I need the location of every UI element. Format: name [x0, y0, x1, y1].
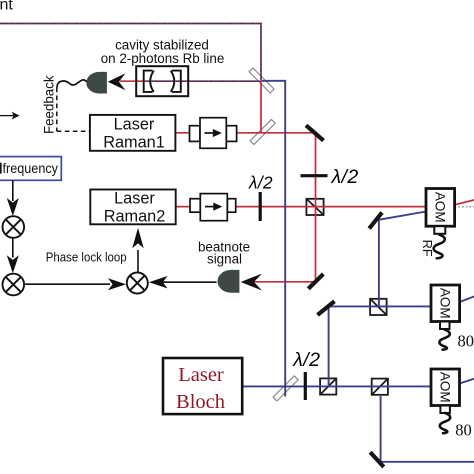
wire: dotted combined beam to experiment (red/blue alternating) [0, 24, 261, 81]
mirror M5 (bottom fold) [370, 452, 384, 467]
PBS3 cube (Bloch path) [372, 379, 388, 395]
svg-text:frequency: frequency [3, 161, 59, 176]
wire: blue vertical PBS4 to mirror M4 [378, 221, 380, 308]
wire: red beam into photodetector PD1 [120, 80, 146, 82]
PBS2 cube (Bloch path) [320, 378, 336, 394]
svg-text:AOM: AOM [438, 288, 453, 319]
svg-text:signal: signal [207, 251, 242, 266]
wire: red beatnote beam to detector [243, 281, 314, 283]
wire: red beam Laser Raman2 row to AOM [176, 206, 426, 208]
wire: red beam Laser Raman1 row [175, 132, 314, 134]
optical isolator 1 [190, 118, 237, 149]
mixer M2 [3, 274, 25, 296]
wire: red output of AOM1 [455, 200, 474, 205]
waveplate lambda/2 #2 (vertical red beam) [301, 174, 328, 177]
svg-text:λ/2: λ/2 [292, 349, 320, 371]
waveplate lambda/2 #1 (Raman2 row) [259, 192, 262, 221]
AOM2 RF squiggle [439, 330, 450, 350]
wire: blue output of AOM3 [460, 379, 474, 384]
wire: wavy lead from PD1 [57, 80, 87, 88]
mirror M4 (to AOM1 fold) [369, 213, 382, 229]
mixer M3 [127, 273, 148, 294]
AOM3 RF squiggle [440, 413, 451, 433]
svg-text:RF: RF [420, 240, 435, 257]
wire: dotted beam through cavity [145, 80, 261, 82]
svg-text:AOM: AOM [438, 372, 453, 403]
arrow at left edge (to experiment) [0, 115, 14, 117]
mirror M1 (Raman1 fold) [306, 125, 324, 140]
AOM2 box [431, 285, 474, 350]
svg-text:Raman2: Raman2 [104, 208, 166, 226]
AOM3 box [431, 369, 474, 440]
wire: blue vertical PBS3 down to mirror M5 [380, 395, 382, 462]
photodetector PD1 (cavity lock) [86, 72, 107, 94]
waveplate lambda/2 #3 (Bloch row) [304, 372, 307, 400]
cavity mirror right [171, 71, 181, 92]
svg-text:λ/2: λ/2 [331, 166, 359, 188]
wire: blue vertical PBS2 to mirror M3 [328, 307, 330, 387]
svg-text:Laser: Laser [114, 116, 155, 134]
arrowhead into PD1 [108, 73, 126, 90]
svg-text:Raman1: Raman1 [103, 134, 165, 152]
laser box Raman1 [90, 115, 175, 151]
wire+arrow frequency to mixer1 [12, 181, 14, 202]
wire+arrow mixer3 to Laser Raman2 [137, 250, 139, 272]
wire: blue beam Laser Bloch row [242, 385, 431, 387]
svg-text:Bloch: Bloch [176, 391, 225, 413]
label frequency box [0, 157, 61, 181]
partial clipped letter [0, 163, 2, 174]
AOM1 RF connector [434, 226, 445, 234]
beam sampler plate (Bloch pickoff) [273, 376, 298, 401]
photodetector PD2 (beatnote) [217, 270, 239, 293]
svg-text:Laser: Laser [178, 364, 224, 386]
svg-text:AOM: AOM [433, 192, 448, 223]
svg-text:on 2-photons Rb line: on 2-photons Rb line [101, 51, 225, 66]
wire: blue horizontal M5 to right edge [378, 461, 474, 463]
AOM2 RF connector [440, 322, 450, 330]
svg-text:80 MHz: 80 MHz [458, 331, 474, 350]
wire: gray dotted zero-order after AOM1 [455, 206, 474, 208]
svg-text:Feedback: Feedback [42, 75, 58, 134]
arrowhead into mixer M3 from detector [149, 276, 168, 288]
beam splitter BS1 (sampler plate, cavity pickoff) [249, 68, 274, 93]
wire+arrow mixer2 to mixer3 [24, 283, 110, 285]
wire: blue beam from BS1 down (Bloch reference) [262, 81, 286, 397]
cavity box [136, 66, 188, 96]
svg-text:ment: ment [0, 0, 13, 14]
arrowhead into PD2 [241, 274, 262, 291]
wire: dashed feedback line [57, 88, 90, 132]
mirror M3 (Bloch up fold) [318, 301, 335, 315]
cavity mirror left [144, 71, 154, 92]
wire: red vertical Raman1 mirror to beatnote mirror [315, 133, 317, 282]
wire+arrow mixer1 to mixer2 [12, 238, 14, 258]
laser box Raman2 [90, 190, 175, 225]
wire: beatnote signal to mixer [162, 281, 217, 283]
beam splitter BS2 (Raman1 pickoff) [250, 119, 275, 144]
wire: blue output of AOM2 [460, 297, 474, 303]
mixer M1 [3, 216, 25, 238]
AOM1 box [420, 189, 455, 259]
AOM3 RF connector [440, 406, 450, 414]
svg-text:80 MHz: 80 MHz [455, 421, 474, 440]
AOM1 RF squiggle [434, 235, 445, 259]
wire: blue horizontal M3 to AOM2 [327, 305, 432, 307]
svg-text:Laser: Laser [114, 190, 155, 208]
wire: blue angled M4 to AOM1 [375, 212, 427, 221]
optical isolator 2 [190, 194, 236, 221]
mirror M2 (beatnote fold) [308, 274, 323, 289]
svg-text:Phase lock loop: Phase lock loop [46, 250, 127, 265]
wire: red vertical BS1 to BS2 [260, 81, 262, 133]
laser box Bloch [163, 358, 242, 414]
PBS1 cube (Raman combiner) [306, 199, 323, 215]
svg-text:λ/2: λ/2 [248, 173, 273, 193]
PBS4 cube (Raman path) [370, 299, 387, 315]
